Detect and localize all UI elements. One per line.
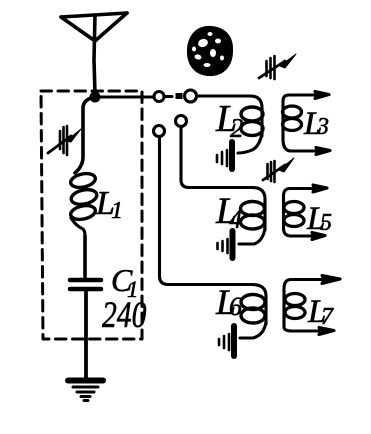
inductor L4 [239,202,265,245]
junction dot on wire [176,93,183,99]
svg-text:240: 240 [102,295,147,336]
capacitor C1 [70,280,101,289]
wire (feed to L2) [197,96,262,136]
chassis ground (L6) [219,326,234,356]
preset arrow (L1) [48,126,81,155]
wire (capacitor to ground) [84,291,88,377]
label L6 [215,282,242,322]
transformer secondary L3 [283,92,331,155]
antenna [61,13,127,94]
inductor L1 [69,172,98,236]
inductor L6 [240,295,266,339]
label 240 [102,295,147,336]
switch contact S1b [185,90,197,102]
label L5 [306,201,332,237]
label L3 [303,106,329,142]
scribbled blob [187,26,233,76]
switch contact S1d [176,116,187,127]
dashed shield box [41,91,142,339]
transformer secondary L5 [284,185,328,240]
wire (L1 to capacitor) [83,236,87,277]
svg-text:1: 1 [111,198,123,224]
svg-text:3: 3 [316,114,329,140]
label L7 [307,294,334,330]
preset arrow (top right) [259,54,296,79]
svg-text:4: 4 [229,205,242,234]
label L4 [215,191,242,234]
switch contact S1a [154,92,164,102]
wire (junction down to L1) [75,97,95,173]
switch contact S1c [154,126,165,137]
node A (antenna junction) [90,92,101,103]
transformer secondary L7 [284,276,340,335]
label L1 [95,185,123,224]
svg-text:5: 5 [320,210,332,236]
chassis ground (L2) [217,142,232,169]
preset arrow (middle) [263,158,294,182]
wire (feed to L4) [181,127,265,230]
label L2 [215,98,244,143]
svg-text:2: 2 [230,113,244,143]
label C1 [111,262,139,302]
wire (between contacts) [165,95,173,98]
wire (feed to L6) [160,137,267,324]
ground [68,381,103,401]
wire (junction to switch) [100,95,152,98]
svg-text:7: 7 [321,304,334,330]
chassis ground (L4) [218,231,233,258]
inductor L2 [238,107,263,153]
svg-text:6: 6 [229,292,242,321]
